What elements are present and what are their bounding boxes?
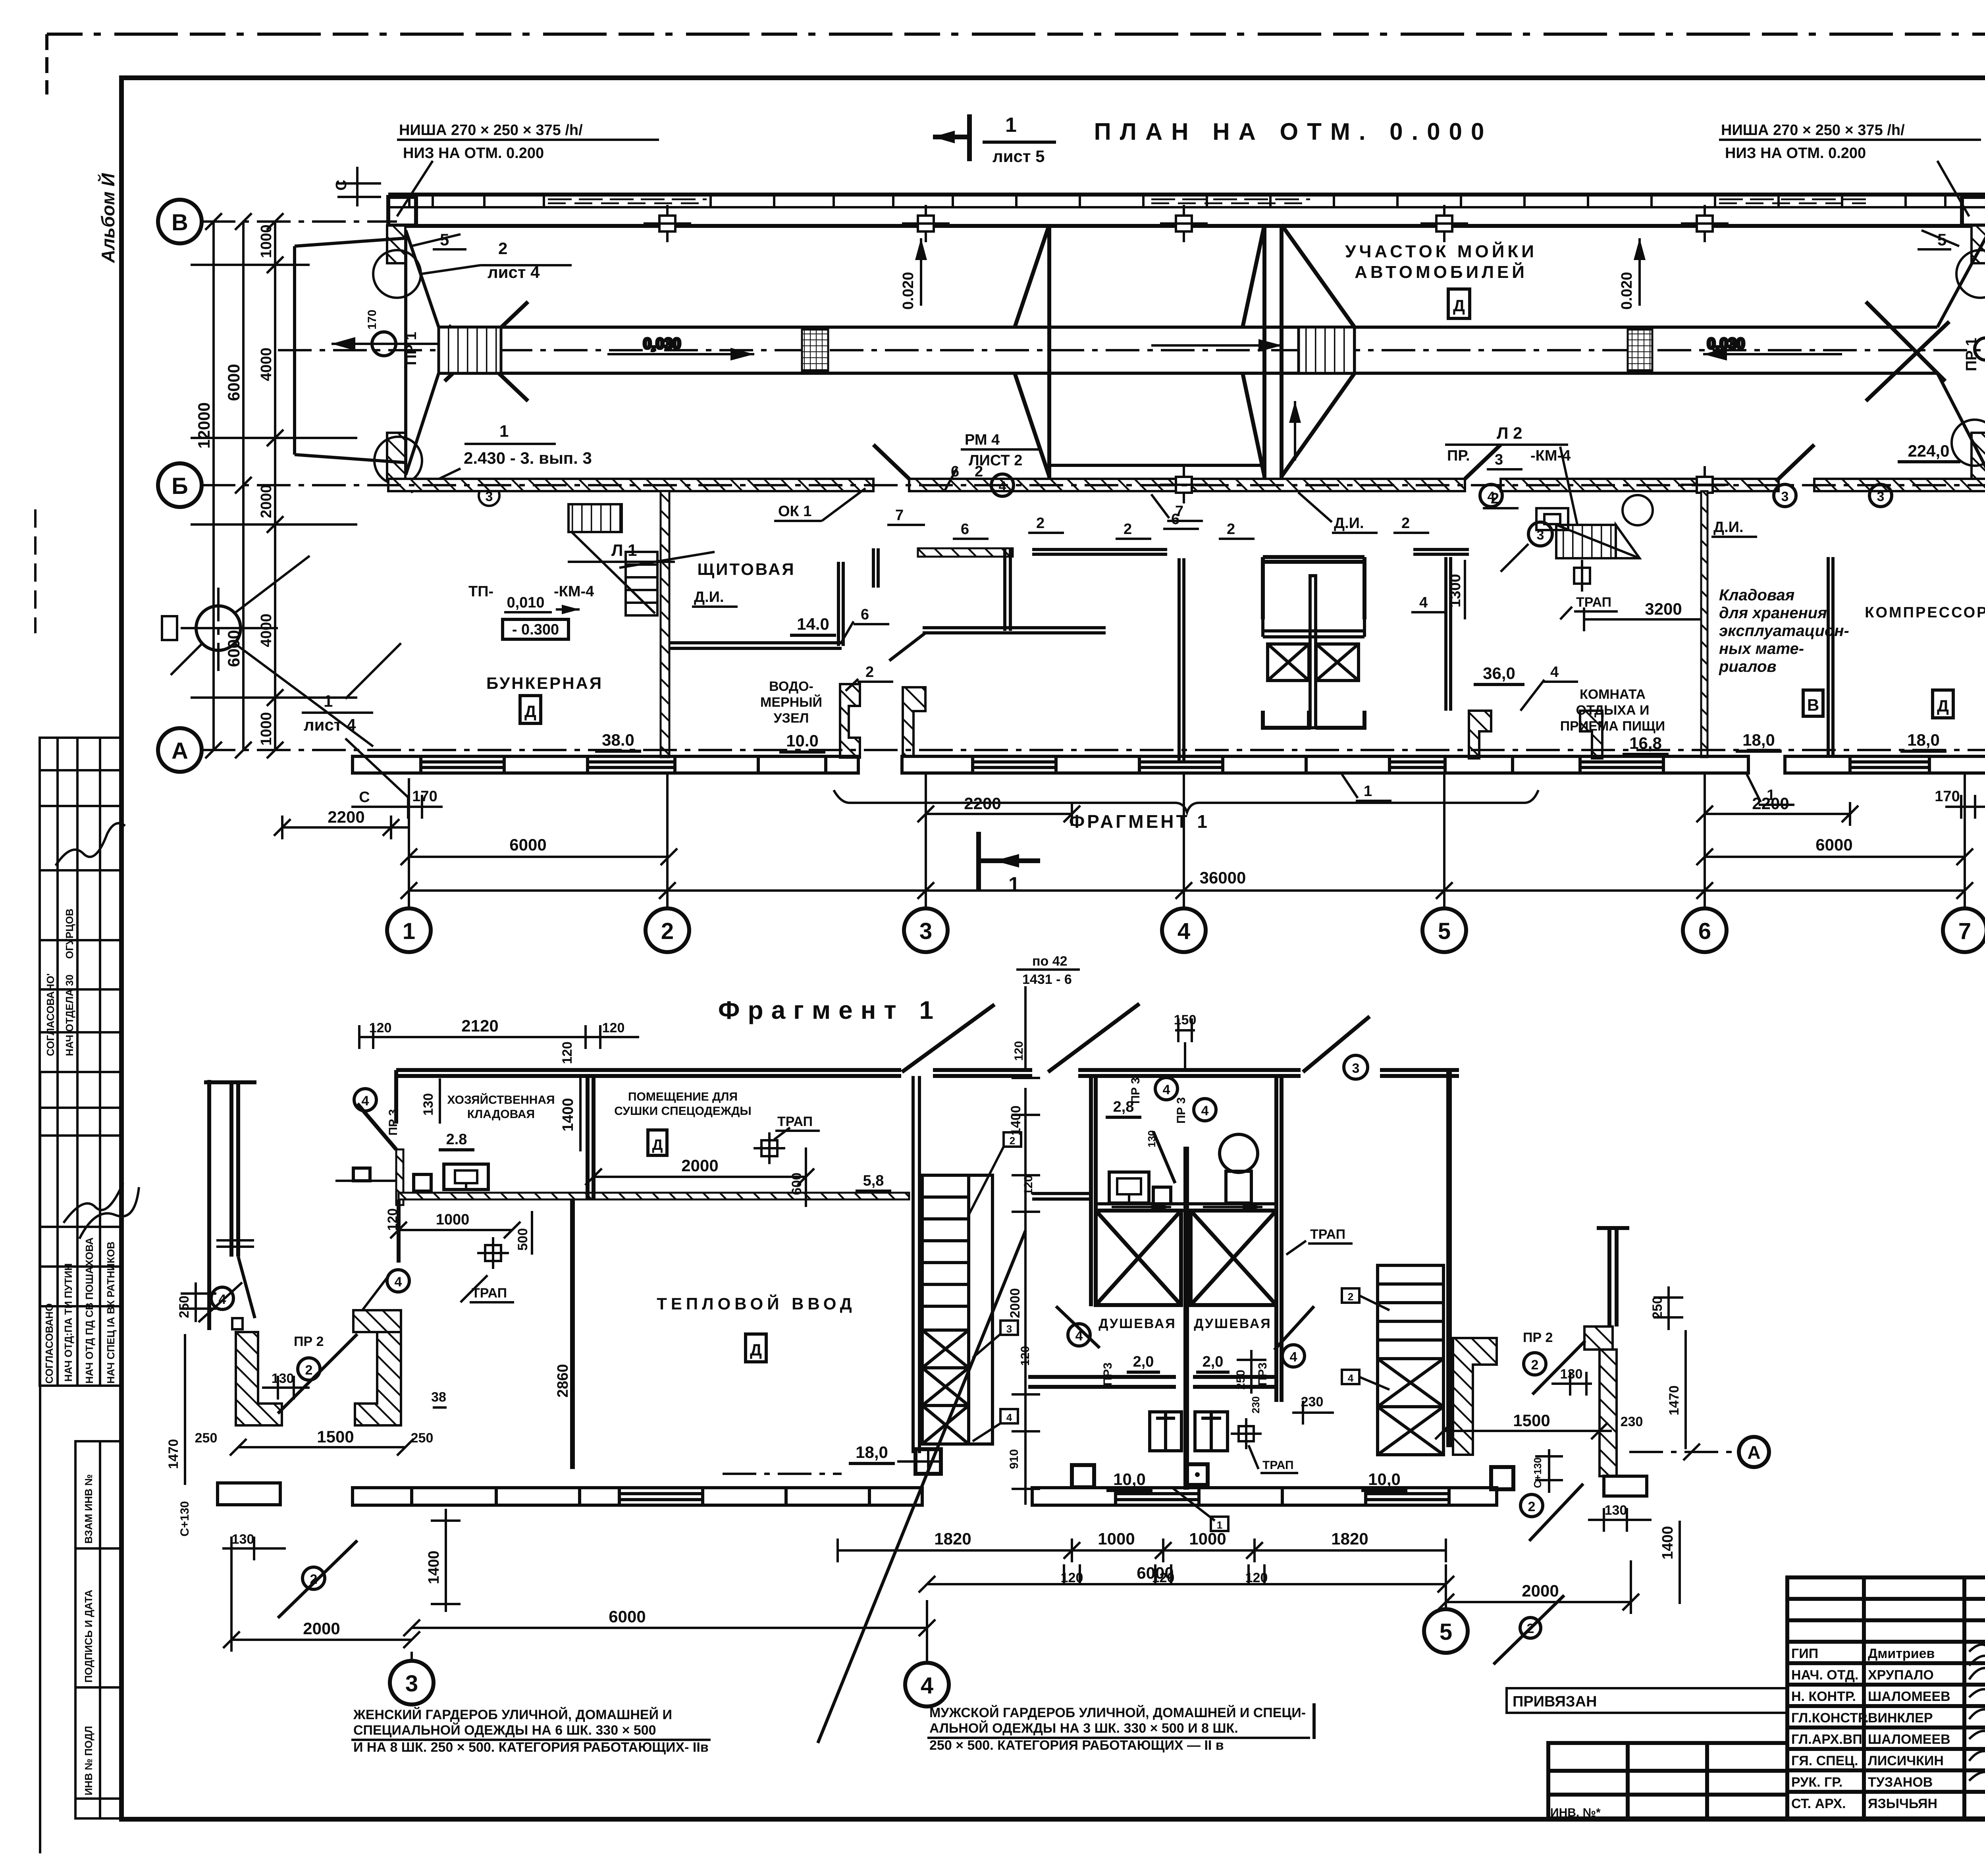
shower mid band xyxy=(1263,619,1364,637)
svg-text:В: В xyxy=(1807,696,1819,714)
pier C room right xyxy=(1580,711,1602,758)
svg-text:10.0: 10.0 xyxy=(786,731,819,750)
svg-text:6000: 6000 xyxy=(224,364,243,401)
svg-text:2.8: 2.8 xyxy=(446,1131,467,1148)
svg-text:ТРАП: ТРАП xyxy=(1576,595,1611,610)
svg-text:ИНВ № ПОДЛ: ИНВ № ПОДЛ xyxy=(83,1726,94,1795)
svg-text:120: 120 xyxy=(560,1041,575,1064)
svg-text:НАЧ СПЕЦ IА ВК РАТНИКОВ: НАЧ СПЕЦ IА ВК РАТНИКОВ xyxy=(105,1242,117,1384)
svg-text:НАЧ ОТД ПД СВ ПОШАХОВА: НАЧ ОТД ПД СВ ПОШАХОВА xyxy=(83,1237,95,1384)
door circle 3 row B a xyxy=(1774,484,1796,507)
inner partition horizontal col3-4 xyxy=(923,628,1106,633)
svg-text:Б: Б xyxy=(172,473,188,499)
dim 36000 full span xyxy=(401,882,1973,899)
frag circle 5 bottom xyxy=(1424,1609,1468,1653)
dim 130 left xyxy=(262,1376,310,1400)
svg-text:2200: 2200 xyxy=(1752,794,1789,813)
svg-text:250: 250 xyxy=(1234,1370,1247,1390)
row A plinth band right part xyxy=(1513,756,1748,773)
svg-text:ПРИЕМА ПИЩИ: ПРИЕМА ПИЩИ xyxy=(1560,719,1665,734)
wall joint symbol row B col6 xyxy=(1681,466,1729,503)
svg-text:по 42: по 42 xyxy=(1032,954,1068,969)
frag shower partition mid xyxy=(1183,1147,1189,1490)
svg-text:-КМ-4: -КМ-4 xyxy=(554,583,594,600)
svg-text:0,030: 0,030 xyxy=(643,335,681,352)
column axis extension lines xyxy=(409,773,1965,908)
frag left wall foot diagonal xyxy=(238,1257,255,1318)
trench top edge xyxy=(439,326,1937,329)
svg-text:1500: 1500 xyxy=(1513,1411,1550,1430)
section mark bottom xyxy=(979,832,1040,891)
svg-text:5: 5 xyxy=(1440,1619,1452,1645)
svg-text:ЩИТОВАЯ: ЩИТОВАЯ xyxy=(697,560,795,578)
left dim vertical lines xyxy=(191,213,357,758)
svg-text:2: 2 xyxy=(1348,1291,1353,1303)
updraft arrow label left xyxy=(915,238,927,306)
frag dim 130 right xyxy=(1551,1372,1592,1396)
shower X box right xyxy=(1316,644,1359,681)
stamp1 signature xyxy=(56,823,125,866)
svg-text:1000: 1000 xyxy=(436,1211,470,1228)
frag right G-wall hatched bar xyxy=(1600,1350,1617,1476)
shower X box left xyxy=(1268,644,1309,681)
svg-text:НАЧ ОТД:ПА ТИ ПУТИН: НАЧ ОТД:ПА ТИ ПУТИН xyxy=(62,1263,74,1382)
svg-text:2: 2 xyxy=(1401,515,1410,532)
svg-text:ПР 1: ПР 1 xyxy=(403,332,420,365)
svg-text:ГЛ.КОНСТР.: ГЛ.КОНСТР. xyxy=(1791,1710,1869,1726)
svg-text:2.430 - 3. вып. 3: 2.430 - 3. вып. 3 xyxy=(464,449,592,467)
dim 2200 left xyxy=(274,816,409,839)
svg-text:СОГЛАСОВАНО: СОГЛАСОВАНО xyxy=(43,1303,55,1384)
frag stairs left leaders xyxy=(1004,1132,1021,1147)
left stamp table 1 xyxy=(40,738,121,1072)
frag trap near trays xyxy=(1239,1426,1254,1441)
sheet outer left dash xyxy=(45,34,48,94)
frag sink shower xyxy=(1109,1172,1149,1203)
svg-text:УЧАСТОК МОЙКИ: УЧАСТОК МОЙКИ xyxy=(1345,241,1537,261)
svg-text:250: 250 xyxy=(177,1296,192,1318)
grid circle 6 xyxy=(1683,908,1727,952)
conveyor ladder block 2 xyxy=(1299,327,1355,373)
svg-text:ПР 2: ПР 2 xyxy=(1523,1330,1553,1345)
frag small box xyxy=(1153,1187,1171,1204)
svg-text:1470: 1470 xyxy=(1667,1385,1682,1415)
svg-text:НИЗ НА ОТМ. 0.200: НИЗ НА ОТМ. 0.200 xyxy=(1725,145,1866,162)
svg-text:250 × 500. КАТЕГОРИЯ РАБОТА: 250 × 500. КАТЕГОРИЯ РАБОТАЮЩИХ — II в xyxy=(929,1738,1224,1753)
svg-text:3: 3 xyxy=(1537,528,1544,543)
hoz bottom wall hatched xyxy=(399,1193,909,1199)
svg-text:1300: 1300 xyxy=(1447,574,1464,607)
svg-text:Фрагмент 1: Фрагмент 1 xyxy=(718,996,941,1024)
frag right G-wall hatched flag xyxy=(1584,1327,1613,1350)
dim 130 bottom left xyxy=(222,1537,286,1560)
pier col3 A-wall xyxy=(903,687,925,757)
pier C corridor left xyxy=(1469,711,1491,758)
svg-text:6000: 6000 xyxy=(609,1607,646,1626)
trench centreline xyxy=(278,349,1985,351)
svg-text:1400: 1400 xyxy=(1008,1105,1023,1136)
svg-text:ОТДЫХА И: ОТДЫХА И xyxy=(1576,703,1650,718)
teplovoy box D xyxy=(746,1334,766,1362)
svg-text:2: 2 xyxy=(661,918,674,944)
frag left G-wall right top flag xyxy=(353,1310,401,1332)
svg-text:Н. КОНТР.: Н. КОНТР. xyxy=(1791,1689,1856,1704)
svg-text:0.030: 0.030 xyxy=(1707,335,1745,352)
door circle 4 near col3 xyxy=(991,474,1014,496)
svg-text:250: 250 xyxy=(195,1431,218,1446)
wall joint symbols at columns 2-6 xyxy=(644,205,1729,242)
svg-text:риалов: риалов xyxy=(1719,658,1777,675)
svg-text:1400: 1400 xyxy=(560,1098,576,1132)
svg-text:10,0: 10,0 xyxy=(1368,1470,1401,1488)
dim 170 C left xyxy=(351,795,443,819)
shower cluster top plan: left partition xyxy=(1179,558,1184,760)
dim 170 C right xyxy=(1945,795,1985,819)
svg-text:6000: 6000 xyxy=(509,835,546,854)
inner rooms col3-4 top wall xyxy=(918,548,1013,557)
trap square top plan xyxy=(1574,568,1590,584)
svg-text:ХРУПАЛО: ХРУПАЛО xyxy=(1868,1668,1934,1683)
gate rails between gates xyxy=(1049,464,1264,467)
svg-text:7: 7 xyxy=(1958,918,1971,944)
hoz wall fixture xyxy=(353,1168,370,1181)
fragment top wall segment 1 xyxy=(396,1070,901,1096)
kladovaya wall left xyxy=(1701,491,1707,757)
folding gate 2 xyxy=(1243,225,1355,479)
svg-text:120: 120 xyxy=(369,1020,392,1035)
frag hatched pier right stairs xyxy=(1453,1338,1497,1455)
hoz kladovaya left wall xyxy=(394,1096,398,1124)
svg-text:1: 1 xyxy=(499,422,509,440)
row A plinth band left part xyxy=(353,756,858,773)
svg-text:С+130: С+130 xyxy=(1532,1458,1544,1488)
svg-text:2: 2 xyxy=(1010,1135,1015,1147)
door circle 4 row B xyxy=(1480,484,1502,507)
inner door leaf col3-4 xyxy=(889,633,925,661)
svg-text:ЖЕНСКИЙ ГАРДЕРОБ УЛИЧНОЙ, ДО: ЖЕНСКИЙ ГАРДЕРОБ УЛИЧНОЙ, ДОМАШНЕЙ И xyxy=(353,1707,672,1722)
svg-text:Л 1: Л 1 xyxy=(611,541,637,559)
frag dim 130 right bottom xyxy=(1588,1508,1652,1532)
svg-text:ДУШЕВАЯ: ДУШЕВАЯ xyxy=(1098,1316,1176,1331)
svg-text:170: 170 xyxy=(1935,788,1960,805)
frag left detail: tall thin wall xyxy=(204,1080,256,1330)
svg-text:ПОДПИСЬ И ДАТА: ПОДПИСЬ И ДАТА xyxy=(83,1590,94,1683)
bunker category box D xyxy=(520,696,541,723)
shower bottom C walls xyxy=(1263,711,1364,728)
svg-text:ДУШЕВАЯ: ДУШЕВАЯ xyxy=(1194,1316,1271,1331)
svg-text:2,0: 2,0 xyxy=(1203,1353,1224,1370)
svg-text:2: 2 xyxy=(1491,490,1499,507)
row axis V xyxy=(202,220,397,223)
svg-text:4: 4 xyxy=(1201,1103,1209,1118)
frag circle 2 left bottom xyxy=(303,1567,325,1589)
grid circle 5 xyxy=(1422,908,1466,952)
frag door leaf shower right xyxy=(1274,1306,1314,1350)
pier col7 top hatched xyxy=(1972,226,1985,263)
kompressornaya box D xyxy=(1933,690,1953,718)
frag right stairs block xyxy=(1378,1265,1443,1455)
svg-text:ПРИВЯЗАН: ПРИВЯЗАН xyxy=(1513,1693,1597,1710)
svg-text:ЛИСИЧКИН: ЛИСИЧКИН xyxy=(1868,1753,1944,1768)
frag circle 2 right xyxy=(1524,1353,1546,1375)
left frag wall vertical xyxy=(397,1199,401,1263)
svg-text:НИША 270 × 250 × 375 /h/: НИША 270 × 250 × 375 /h/ xyxy=(1721,122,1905,139)
leader diag PR2 left xyxy=(278,1334,357,1413)
svg-text:НИША 270 × 250 × 375 /h/: НИША 270 × 250 × 375 /h/ xyxy=(399,122,583,139)
fragment top wall segment 2 xyxy=(933,1070,1032,1076)
dim 1500 left xyxy=(230,1439,414,1456)
svg-text:224,0: 224,0 xyxy=(1908,442,1949,460)
svg-text:ТРАП: ТРАП xyxy=(1262,1459,1294,1472)
svg-text:230: 230 xyxy=(1301,1394,1324,1409)
svg-text:НИЗ НА ОТМ. 0.200: НИЗ НА ОТМ. 0.200 xyxy=(403,145,544,162)
svg-text:36000: 36000 xyxy=(1200,868,1246,887)
door leaf row B near col4.5 xyxy=(1465,445,1501,479)
fragment centreline dash xyxy=(723,1473,842,1475)
left stamp table 2 xyxy=(40,1072,121,1386)
frag shower lower C walls right xyxy=(1193,1377,1276,1387)
svg-text:6: 6 xyxy=(861,606,869,623)
frag shower X box left xyxy=(1096,1211,1181,1305)
svg-text:ТП-: ТП- xyxy=(468,583,493,600)
svg-text:Д: Д xyxy=(652,1137,663,1153)
svg-text:7: 7 xyxy=(895,507,904,524)
svg-text:0,010: 0,010 xyxy=(507,594,544,611)
svg-text:130: 130 xyxy=(272,1371,294,1386)
svg-text:4: 4 xyxy=(1006,1411,1012,1423)
sheet outer top dashed border xyxy=(47,33,1985,36)
svg-text:2120: 2120 xyxy=(461,1016,498,1035)
frag left G-wall foot xyxy=(218,1483,280,1505)
leader diag left bottom xyxy=(278,1541,357,1618)
svg-text:130: 130 xyxy=(232,1532,254,1547)
svg-text:С+130: С+130 xyxy=(178,1501,191,1537)
svg-text:600: 600 xyxy=(789,1172,804,1195)
svg-text:4000: 4000 xyxy=(258,347,275,381)
svg-text:Альбом Й: Альбом Й xyxy=(98,173,118,263)
grid circle 1 xyxy=(387,908,431,952)
svg-text:ПР3: ПР3 xyxy=(1256,1363,1269,1386)
svg-text:ТРАП: ТРАП xyxy=(777,1114,813,1129)
svg-text:1820: 1820 xyxy=(934,1529,971,1548)
pier col1 bottom hatched xyxy=(387,433,405,480)
door leaf row B near col6 xyxy=(1779,445,1814,479)
fragment top wall segment 4 xyxy=(1380,1070,1459,1076)
svg-text:1000: 1000 xyxy=(258,712,275,746)
dim 600 vertical sushka xyxy=(805,1147,807,1207)
rooms strip: col2 wall hatched xyxy=(661,491,669,757)
small rect at turning detail xyxy=(162,616,177,640)
svg-text:1400: 1400 xyxy=(426,1550,442,1584)
svg-text:3: 3 xyxy=(1006,1323,1012,1335)
niche recess right corner xyxy=(1962,197,1985,226)
frag dims chain bottom showers xyxy=(838,1539,1446,1562)
svg-text:1: 1 xyxy=(1008,873,1020,896)
frag dim 2000 bottom right xyxy=(1438,1560,1639,1614)
door funnel left xyxy=(406,230,439,475)
svg-text:ШАЛОМЕЕВ: ШАЛОМЕЕВ xyxy=(1868,1689,1950,1704)
svg-text:3: 3 xyxy=(1495,451,1503,468)
svg-text:ПР 3: ПР 3 xyxy=(1175,1097,1188,1124)
fragment top wall segment 3 xyxy=(1078,1070,1301,1076)
frag bottom plinth band part2 xyxy=(1032,1488,1497,1505)
detail circle 3 komnata xyxy=(1528,522,1552,546)
frag left G-wall right piece xyxy=(355,1332,401,1425)
svg-text:170: 170 xyxy=(366,310,379,330)
detail circle col1 top xyxy=(373,250,421,298)
aux table xyxy=(1548,1743,1787,1818)
svg-text:Кладовая: Кладовая xyxy=(1719,586,1794,604)
svg-text:КОМПРЕССОРНАЯ: КОМПРЕССОРНАЯ xyxy=(1865,604,1985,621)
svg-text:ЯЗЫЧЬЯН: ЯЗЫЧЬЯН xyxy=(1868,1796,1937,1811)
svg-text:2000: 2000 xyxy=(1008,1288,1023,1318)
svg-text:Д.И.: Д.И. xyxy=(1334,515,1364,532)
niche leader right xyxy=(1937,161,1969,216)
svg-text:ШАЛОМЕЕВ: ШАЛОМЕЕВ xyxy=(1868,1732,1950,1747)
svg-text:120: 120 xyxy=(385,1208,400,1231)
up arrow mid xyxy=(1289,401,1301,461)
frag small boxes below showers xyxy=(1187,1464,1208,1485)
svg-text:С: С xyxy=(333,180,350,191)
dim 2000 sushka xyxy=(585,1168,814,1185)
svg-text:2: 2 xyxy=(975,463,983,480)
svg-text:2: 2 xyxy=(1528,1499,1536,1514)
frag right G-wall top thin xyxy=(1597,1228,1629,1327)
svg-text:ПР 2: ПР 2 xyxy=(294,1334,324,1349)
row B wall hatched band xyxy=(388,479,1985,491)
small box hoz xyxy=(414,1174,431,1191)
svg-text:910: 910 xyxy=(1008,1449,1021,1469)
svg-text:Д: Д xyxy=(750,1340,762,1359)
svg-text:ИНВ. №*: ИНВ. №* xyxy=(1550,1806,1601,1819)
svg-text:5: 5 xyxy=(1438,918,1451,944)
svg-text:ных мате-: ных мате- xyxy=(1719,640,1804,657)
kompressornaya wall xyxy=(1828,557,1833,757)
svg-text:6000: 6000 xyxy=(1815,835,1852,854)
frag left detail ticks xyxy=(216,1240,254,1247)
svg-text:ГЛ.АРХ.ВП.: ГЛ.АРХ.ВП. xyxy=(1791,1732,1866,1747)
svg-text:230: 230 xyxy=(1621,1414,1643,1429)
frag trap square right xyxy=(1491,1467,1513,1489)
svg-text:1000: 1000 xyxy=(1098,1529,1135,1548)
frag door leaf shower left xyxy=(1056,1306,1100,1348)
stair L2 block xyxy=(1556,525,1640,558)
svg-text:2: 2 xyxy=(1036,515,1045,532)
svg-text:230: 230 xyxy=(1250,1396,1262,1413)
svg-text:2200: 2200 xyxy=(328,808,364,826)
trap teplovoy xyxy=(485,1245,501,1261)
svg-text:МУЖСКОЙ ГАРДЕРОБ УЛИЧНОЙ, ДО: МУЖСКОЙ ГАРДЕРОБ УЛИЧНОЙ, ДОМАШНЕЙ И СПЕ… xyxy=(929,1705,1306,1720)
svg-text:СОГЛАСОВАНО': СОГЛАСОВАНО' xyxy=(44,973,56,1056)
svg-text:ПОМЕЩЕНИЕ ДЛЯ: ПОМЕЩЕНИЕ ДЛЯ xyxy=(628,1090,738,1103)
frag circle 3 bottom xyxy=(390,1661,434,1704)
svg-text:ТРАП: ТРАП xyxy=(1310,1227,1345,1242)
trap square frag bottom xyxy=(1072,1465,1094,1487)
row A plinth band mid part xyxy=(902,756,1513,773)
svg-text:250: 250 xyxy=(1650,1296,1665,1319)
section mark top xyxy=(933,114,969,161)
svg-text:ПР 3: ПР 3 xyxy=(387,1109,400,1136)
fragment circle 4 top-left xyxy=(354,1089,376,1111)
approach ramp left xyxy=(295,238,405,463)
svg-text:1470: 1470 xyxy=(166,1439,181,1469)
frag circle 4 shower left xyxy=(1068,1324,1090,1346)
svg-text:КЛАДОВАЯ: КЛАДОВАЯ xyxy=(467,1108,535,1121)
svg-text:А: А xyxy=(1747,1442,1760,1463)
folding gate 1 xyxy=(1015,225,1049,479)
window glazing dashes mid xyxy=(1151,199,1310,203)
svg-text:1: 1 xyxy=(403,918,415,944)
svg-text:4: 4 xyxy=(362,1093,369,1109)
fine hatch block mid-right xyxy=(1628,330,1652,371)
svg-text:лист 5: лист 5 xyxy=(992,147,1045,166)
svg-text:ВИНКЛЕР: ВИНКЛЕР xyxy=(1868,1710,1933,1726)
svg-text:СТ. АРХ.: СТ. АРХ. xyxy=(1791,1796,1846,1811)
frag circle 4 shower top a xyxy=(1155,1078,1178,1100)
svg-text:12000: 12000 xyxy=(195,402,213,449)
fragment brace xyxy=(834,790,1538,812)
svg-text:2000: 2000 xyxy=(258,484,275,518)
window glazing dashes right xyxy=(1719,199,1866,203)
wall brick segments xyxy=(388,195,1985,207)
svg-text:0.020: 0.020 xyxy=(1619,272,1635,310)
svg-text:И НА 8 ШК. 250 × 500. КАТЕ: И НА 8 ШК. 250 × 500. КАТЕГОРИЯ РАБОТАЮЩ… xyxy=(353,1740,709,1755)
svg-text:АВТОМОБИЛЕЙ: АВТОМОБИЛЕЙ xyxy=(1355,262,1528,282)
frag circle 2 far bottom xyxy=(1520,1618,1541,1638)
svg-text:2000: 2000 xyxy=(1522,1581,1559,1600)
row axis B xyxy=(202,484,1985,486)
svg-text:120: 120 xyxy=(1019,1346,1032,1366)
svg-text:КОМНАТА: КОМНАТА xyxy=(1580,687,1646,702)
frag dim 6000 bottom left xyxy=(403,1620,935,1636)
frag shower right partition xyxy=(1276,1076,1282,1402)
right axis circle PR1 xyxy=(1975,338,1985,360)
partition shchitovaya bottom xyxy=(669,643,842,648)
svg-text:Дмитриев: Дмитриев xyxy=(1868,1646,1935,1661)
grid circle 2 xyxy=(646,908,689,952)
dim 1300 vertical xyxy=(1464,560,1466,619)
frag shower row top band xyxy=(1096,1204,1276,1211)
title block signatures xyxy=(1969,1642,1985,1781)
fragment door leaf top 3 xyxy=(1303,1016,1370,1072)
svg-text:лист 4: лист 4 xyxy=(488,263,540,281)
svg-text:120: 120 xyxy=(1012,1041,1025,1061)
wall left of stairs xyxy=(913,1076,919,1453)
svg-text:Л 2: Л 2 xyxy=(1497,424,1522,442)
door leaf row B near col3 xyxy=(873,445,909,479)
svg-text:МЕРНЫЙ: МЕРНЫЙ xyxy=(760,694,822,710)
row A plinth band far right part xyxy=(1785,756,1985,773)
level mark -0.300 xyxy=(503,619,569,639)
svg-text:38: 38 xyxy=(431,1390,446,1405)
teplovoy mid partition xyxy=(570,1199,575,1469)
svg-text:7: 7 xyxy=(1175,503,1183,520)
svg-text:5: 5 xyxy=(440,230,449,249)
frag circle 4 shower right xyxy=(1282,1345,1305,1367)
frag shower block left wall xyxy=(1091,1076,1096,1306)
frag circle 4 left a xyxy=(211,1287,233,1309)
dim 2200 right xyxy=(1696,802,1858,826)
pier col1 top hatched xyxy=(387,226,405,263)
frag leader right bottom xyxy=(1529,1484,1583,1541)
svg-text:ГЯ. СПЕЦ.: ГЯ. СПЕЦ. xyxy=(1791,1753,1858,1768)
pier C vodomerny xyxy=(840,684,860,758)
svg-text:3: 3 xyxy=(405,1671,418,1697)
svg-text:лист 4: лист 4 xyxy=(304,715,356,734)
svg-text:В: В xyxy=(172,210,188,235)
svg-text:6: 6 xyxy=(1698,918,1711,944)
dim 3200 xyxy=(1584,618,1703,621)
